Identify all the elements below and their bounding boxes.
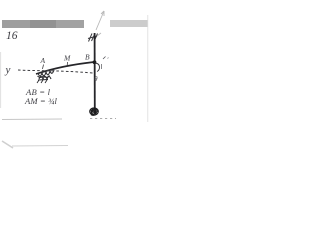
faint right edge line xyxy=(147,15,149,122)
hook right of junction xyxy=(95,63,100,72)
tick below M xyxy=(66,62,68,65)
svg-text:16: 16 xyxy=(6,30,18,42)
top gray band segment left xyxy=(2,20,30,28)
top gray band segment mid xyxy=(30,20,56,28)
bottom-left faint smudge xyxy=(2,141,13,148)
ceiling hatch xyxy=(88,34,98,42)
svg-text:B: B xyxy=(85,52,90,61)
faint diagonal arrow up-right xyxy=(96,11,104,36)
pivot scribble at A xyxy=(37,70,54,83)
tiny tick right of hook xyxy=(101,64,103,69)
ball scribble at rod bottom xyxy=(90,108,99,115)
top gray band segment mid2 xyxy=(56,20,84,28)
faint dots right of faint line xyxy=(90,118,116,120)
rod AB xyxy=(36,62,94,74)
svg-text:A: A xyxy=(40,56,46,65)
dashed horizontal line xyxy=(18,70,93,73)
svg-text:θ: θ xyxy=(94,75,98,83)
svg-text:AM = ¾l: AM = ¾l xyxy=(24,96,58,106)
junction blob at B xyxy=(93,60,97,64)
tick below A xyxy=(43,65,44,70)
faint line under drawing xyxy=(2,118,62,121)
svg-text:y: y xyxy=(5,64,11,76)
vertical rod xyxy=(94,33,96,112)
faint left edge line xyxy=(0,52,2,108)
svg-text:M: M xyxy=(63,54,71,63)
tiny speck top-right of junction xyxy=(103,57,106,60)
top gray band faint right xyxy=(110,20,148,27)
faint bottom line xyxy=(12,145,68,148)
